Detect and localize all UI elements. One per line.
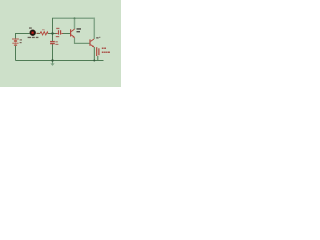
junction dot: Q1 collector on top rail bbox=[74, 17, 76, 19]
transistor Q2 bbox=[89, 39, 94, 47]
wire: C1 to bottom rail bbox=[52, 44, 54, 61]
resistor R1 label bbox=[42, 29, 45, 30]
wire: R1 to node A to C2 bbox=[48, 33, 58, 35]
wire: ground stub below rail bbox=[52, 61, 54, 64]
ground symbol bbox=[50, 63, 54, 66]
wire: battery top to LED bbox=[16, 34, 31, 39]
wire: R3 bottom lead to rail bbox=[97, 56, 99, 61]
transistor Q2 label bbox=[96, 37, 100, 39]
wire: LED to resistor R1 bbox=[37, 33, 41, 35]
capacitor C2 (series) bbox=[56, 30, 63, 34]
resistor R1 bbox=[40, 32, 48, 35]
node A junction dot bbox=[51, 32, 53, 34]
LED D1 reference label bbox=[29, 27, 32, 28]
wire: top power rail (soft) bbox=[53, 18, 94, 44]
junction dot: Q2 emitter on bottom rail bbox=[93, 60, 95, 62]
transistor Q1 label bbox=[77, 28, 82, 32]
wire: C2 to Q1 base bbox=[62, 33, 71, 35]
capacitor C2 labels bbox=[56, 28, 60, 37]
junction dot: ground on bottom rail bbox=[51, 59, 53, 61]
schematic background bbox=[0, 0, 121, 87]
capacitor C1 (node A to ground) bbox=[50, 42, 55, 44]
capacitor C1 label bbox=[55, 41, 58, 45]
battery B1 label bbox=[20, 39, 22, 43]
wire: Q2 emitter down to bottom rail bbox=[93, 47, 95, 61]
transistor Q1 bbox=[70, 29, 75, 38]
resistor R3 labels bbox=[102, 48, 110, 54]
wire: bottom ground rail bbox=[16, 60, 104, 62]
LED D1 value label bbox=[28, 37, 39, 38]
battery B1 bbox=[12, 39, 19, 61]
wire: node A down to capacitor C1 bbox=[52, 34, 54, 42]
wire: Q1 collector to top rail bbox=[74, 18, 76, 29]
LED D1 right pin bbox=[37, 33, 39, 34]
wire: left vertical from top rail to node A bbox=[52, 18, 54, 33]
wire: Q1 emitter to Q2 base bbox=[75, 38, 90, 44]
resistor R3 (vertical, right) bbox=[97, 47, 99, 56]
LED D1 bbox=[30, 30, 36, 36]
